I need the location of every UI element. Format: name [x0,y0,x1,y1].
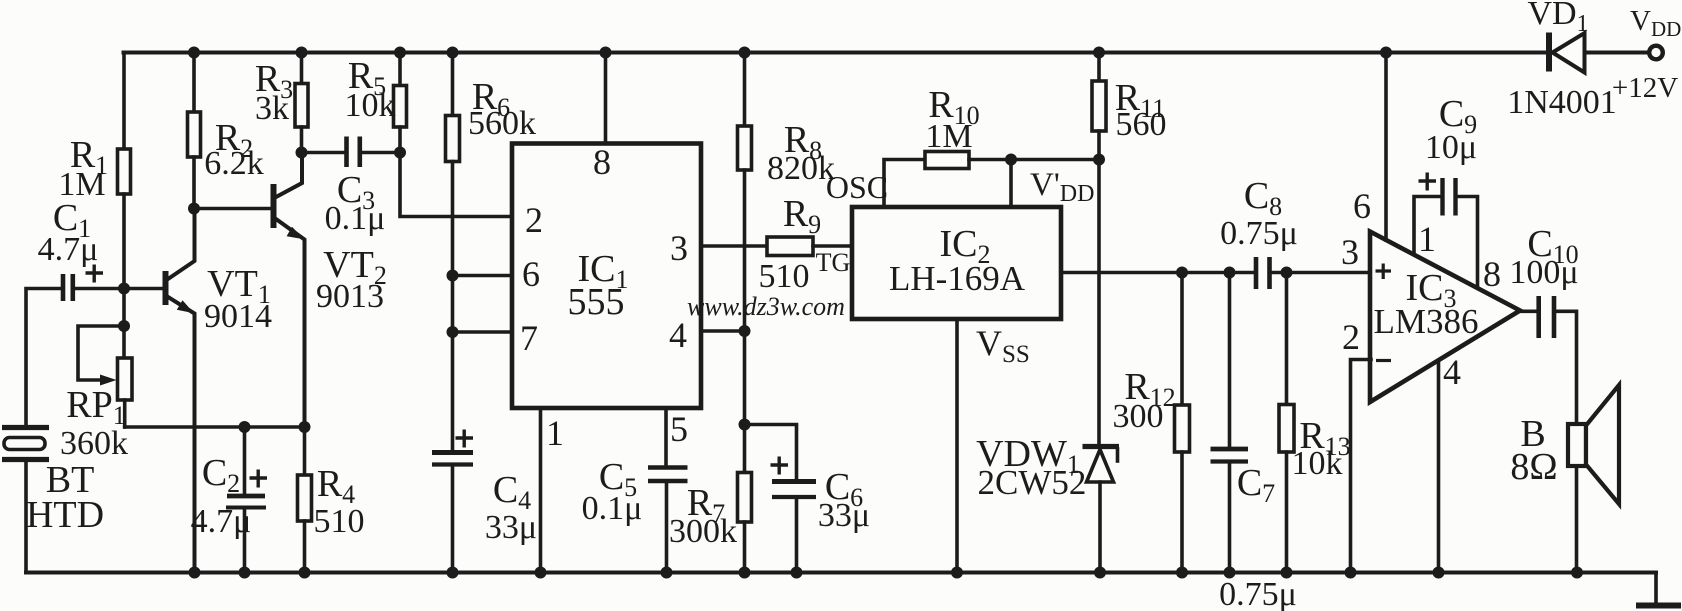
svg-text:4.7μ: 4.7μ [191,503,252,540]
svg-text:10μ: 10μ [1425,129,1477,166]
svg-text:6: 6 [522,254,540,294]
wire: IC3 pin1 up [1414,197,1441,255]
svg-text:2CW52: 2CW52 [978,463,1087,502]
ground [1636,603,1681,609]
speaker B [1568,385,1619,573]
svg-text:2: 2 [525,200,543,240]
node: pin6 junction [447,270,513,333]
junction: R11 top rail [1093,47,1105,59]
junction: R13 top [1281,267,1293,279]
junction: IC3 pin4 ground [1433,567,1445,579]
svg-text:100μ: 100μ [1509,254,1578,291]
junction: VT1 emitter ground [189,567,201,579]
junction: IC3 pin6 top rail [1380,47,1392,59]
wire: top supply rail VDD [124,51,1649,55]
svg-text:33μ: 33μ [818,497,870,534]
junction: VSS ground [951,567,963,579]
svg-text:C7: C7 [1237,462,1275,508]
resistor R11 [1092,53,1106,160]
junction: R3 top rail [296,47,308,59]
svg-text:HTD: HTD [26,494,104,536]
wire: OSC pin [884,160,925,208]
wire: R11 down to VDW1 [1097,160,1101,445]
transistor VT1 [124,209,195,573]
resistor R7 [738,425,752,573]
capacitor C5 [648,468,688,573]
svg-text:4: 4 [669,315,687,355]
resistor R5 [394,53,407,153]
wire: IC3 pin2 to ground [1351,360,1372,573]
junction: IC3 pin2 ground [1345,567,1357,579]
wire: bottom ground rail [26,571,1656,575]
wire: IC3 pin6 to rail [1384,53,1388,241]
capacitor C2 [226,427,267,573]
op-amp IC3 LM386 triangle [1370,232,1520,403]
wire: pin4 to R8 line [701,325,751,337]
svg-text:7: 7 [520,318,538,358]
resistor R2 [188,53,201,209]
capacitor C3 [347,137,401,168]
svg-text:VDD: VDD [1630,5,1681,41]
zener diode VDW1 2CW52 [1083,447,1120,573]
svg-text:R9: R9 [783,193,821,239]
junction: C5 ground [661,567,673,579]
transistor VT2 [271,153,305,428]
node: V'DD junction [1005,154,1017,208]
wire: IC3 output to C10 [1520,309,1536,313]
resistor R3 [295,53,308,153]
svg-text:+12V: +12V [1612,72,1678,104]
wire: BT top to C1 [26,289,60,426]
wire: pin3 to R9 [701,244,767,248]
IC2 LH-169A box [852,207,1061,319]
svg-text:300: 300 [1113,398,1164,435]
svg-text:VSS: VSS [976,323,1030,368]
junction: R13 ground [1281,567,1293,579]
node: R2/VT1 collector/VT2 base [188,203,271,215]
capacitor C6 [771,457,817,573]
svg-text:510: 510 [759,258,810,295]
potentiometer RP1 [78,326,132,427]
junction: R11/V'DD [1093,154,1105,166]
capacitor C4 [432,430,473,573]
junction: R2 top rail [188,47,200,59]
svg-text:8: 8 [1483,254,1501,294]
diode VD1 1N4001 [1549,33,1585,73]
resistor R4 [298,427,312,573]
svg-text:6: 6 [1353,186,1371,226]
junction: C2 top [239,421,251,433]
junction: R12 ground [1176,567,1188,579]
svg-text:3: 3 [1341,232,1359,272]
wire: C10 to speaker [1556,311,1577,424]
node: R3/VT2 collector/C3 [296,147,345,159]
capacitor C7 [1211,273,1249,573]
resistor R1 [118,53,131,284]
junction: R8 top rail [739,47,751,59]
wire: ground drop at right [1654,573,1658,604]
svg-text:4.7μ: 4.7μ [38,231,99,268]
svg-text:560k: 560k [468,105,536,142]
svg-text:9014: 9014 [204,298,272,335]
svg-text:V'DD: V'DD [1030,167,1094,207]
svg-text:www.dz3w.com: www.dz3w.com [687,292,845,321]
resistor R6 [446,53,460,276]
svg-text:8Ω: 8Ω [1510,446,1557,488]
wire: IC2 output to IC3 + input [1061,271,1371,275]
svg-text:1M: 1M [925,118,972,155]
wire: C1 to node A [75,287,124,291]
svg-text:LM386: LM386 [1374,302,1479,341]
capacitor C9 [1419,173,1456,216]
svg-text:0.75μ: 0.75μ [1219,576,1297,611]
svg-text:1: 1 [1418,219,1436,259]
resistor R10 [925,152,1099,169]
svg-text:TG: TG [816,248,851,277]
junction: C4 ground [447,567,459,579]
resistor R12 [1175,273,1190,573]
node A: C1/R1/VT1 base junction [118,283,130,333]
node: R7/C6 junction [739,419,797,479]
junction: C6 ground [791,567,803,579]
svg-text:9013: 9013 [316,278,384,315]
svg-text:0.1μ: 0.1μ [582,490,643,527]
node: pin7 junction [447,326,513,450]
wire: RP1 bottom to C2/R4 [125,425,305,429]
wire: C9 to IC3 pin8 [1458,197,1478,289]
op-amp/timer IC1 555 box [512,144,701,409]
capacitor C1 [63,265,103,302]
resistor R9 [767,237,852,256]
wire: pin1 to ground [539,408,543,573]
junction: C7 ground [1224,567,1236,579]
junction: R4 top [299,421,311,433]
svg-text:3: 3 [670,228,688,268]
junction: VDW1 ground [1094,567,1106,579]
junction: R6 top rail [447,47,459,59]
svg-text:33μ: 33μ [485,509,537,546]
wire: pin5 to C5 [664,408,668,467]
svg-text:1N4001: 1N4001 [1507,84,1617,121]
junction: R12 top [1176,267,1188,279]
svg-text:8: 8 [593,142,611,182]
svg-text:10k: 10k [1292,445,1343,482]
resistor R8 [738,53,752,425]
svg-text:LH-169A: LH-169A [889,259,1026,298]
junction: pin8 top rail [600,47,612,59]
resistor R13 [1279,273,1294,573]
svg-text:4: 4 [1443,352,1461,392]
wire: pin8 to rail [604,53,608,144]
node: C3/R5 to IC1 pin2 [394,147,512,217]
svg-text:555: 555 [568,281,625,323]
svg-text:3k: 3k [255,90,289,127]
svg-text:10k: 10k [345,87,396,124]
junction: R4 ground [299,567,311,579]
junction: speaker ground [1571,567,1583,579]
svg-text:VD1: VD1 [1527,0,1588,37]
svg-text:1: 1 [546,413,564,453]
wire: IC3 pin4 to ground [1437,361,1441,573]
svg-text:560: 560 [1116,106,1167,143]
svg-text:820k: 820k [767,150,835,187]
transducer BT HTD [2,428,49,460]
svg-text:0.1μ: 0.1μ [325,200,386,237]
junction: C7 top [1224,267,1236,279]
terminal VDD +12V [1649,46,1663,60]
svg-text:OSC: OSC [826,169,888,205]
junction: R7 ground [739,567,751,579]
svg-text:0.75μ: 0.75μ [1220,215,1298,252]
svg-text:300k: 300k [669,513,737,550]
svg-text:5: 5 [670,409,688,449]
capacitor C10 [1539,296,1554,338]
svg-text:6.2k: 6.2k [204,145,264,182]
svg-text:510: 510 [314,503,365,540]
junction: R5 top rail [394,47,406,59]
svg-text:C2: C2 [202,452,240,498]
svg-text:360k: 360k [60,425,128,462]
svg-text:2: 2 [1342,317,1360,357]
capacitor C8 [1256,257,1270,289]
junction: pin1 ground [535,567,547,579]
wire: VSS pin to ground [955,319,959,573]
wire: BT bottom to ground [24,462,28,573]
junction: C2 ground [239,567,251,579]
